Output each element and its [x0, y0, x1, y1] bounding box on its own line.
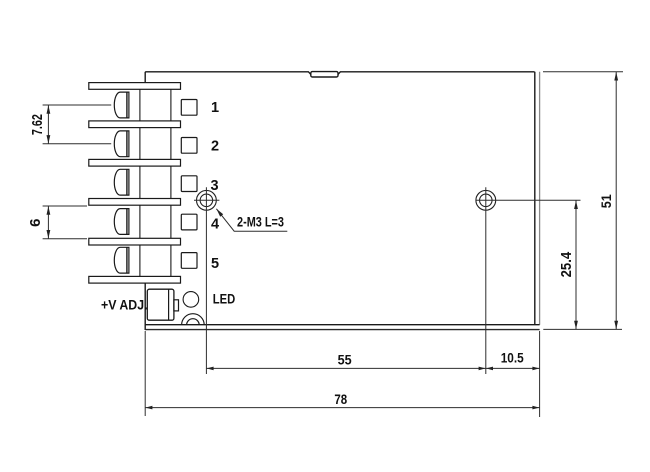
svg-text:4: 4 [211, 217, 219, 233]
pin marker square 4 [181, 214, 197, 230]
svg-text:78: 78 [334, 391, 347, 407]
bottom edge hole outer arc [182, 314, 205, 325]
dimension 7.62 line [47, 105, 49, 144]
LED indicator circle [183, 292, 199, 308]
mounting hole left inner circle [200, 194, 213, 207]
arrowhead 78 left [145, 406, 152, 410]
svg-text:2-M3 L=3: 2-M3 L=3 [237, 214, 284, 230]
dimension 6 extension line top [43, 205, 87, 207]
mounting hole right inner circle [480, 194, 493, 207]
potentiometer tab [174, 300, 179, 311]
case bottom edge outer line [145, 329, 539, 331]
dimension 10.5 line [486, 367, 540, 369]
pin marker square 2 [181, 138, 197, 154]
dimension 7.62 extension line top [43, 104, 112, 106]
dimension 78 line [145, 407, 539, 409]
dimension 78 and 10.5 right extension line [539, 331, 541, 417]
case right flange inner line [534, 72, 536, 325]
arrowhead 51 bottom [614, 321, 618, 330]
dimension 51 extension line top [543, 71, 623, 73]
arrowhead 10.5 left [486, 367, 493, 371]
arrowhead 51 top [614, 72, 618, 81]
svg-text:+V ADJ.: +V ADJ. [101, 296, 148, 312]
dimension 55 line [206, 367, 485, 369]
dimension 78 left extension line [144, 331, 146, 416]
case cover notch [311, 72, 338, 77]
mounting hole left horizontal centerline [194, 199, 219, 201]
svg-text:6: 6 [27, 219, 44, 227]
arrowhead 7.62 top [47, 105, 51, 114]
dimension 25.4 line [575, 200, 577, 329]
terminal block divider bar 5 [89, 238, 181, 245]
terminal block divider bar 2 [89, 121, 181, 128]
svg-text:1: 1 [211, 100, 219, 116]
svg-text:LED: LED [213, 291, 236, 307]
arrowhead leader 2-M3 [216, 209, 223, 217]
case right flange outer line [539, 72, 541, 325]
arrowhead 25.4 top [574, 201, 578, 210]
svg-text:5: 5 [211, 256, 219, 272]
pin marker square 5 [181, 253, 197, 269]
arrowhead 6 top [47, 206, 51, 215]
arrowhead 25.4 bottom [574, 321, 578, 330]
arrowhead 7.62 bottom [47, 135, 51, 144]
pin marker square 1 [181, 100, 197, 116]
svg-text:2: 2 [211, 139, 219, 155]
case top edge right segment [338, 72, 535, 75]
terminal screw 4 [114, 209, 129, 235]
terminal block right vertical line [170, 89, 172, 276]
svg-text:3: 3 [211, 178, 219, 194]
terminal block divider bar 1 [89, 83, 181, 90]
terminal screw 1 [114, 92, 129, 118]
dimension 7.62 extension line bottom [43, 143, 112, 145]
dimension 6 line [47, 206, 49, 239]
terminal screw 5 [114, 247, 129, 273]
mounting hole right vertical centerline and 10.5 extension line [485, 187, 487, 374]
svg-text:10.5: 10.5 [501, 351, 524, 366]
arrowhead 78 right [532, 406, 539, 410]
arrowhead 55 left [207, 367, 214, 371]
mounting hole right horizontal centerline and 25.4 extension line [476, 199, 581, 201]
terminal block divider bar 6 [89, 276, 181, 283]
case bottom edge inner line [145, 324, 539, 326]
terminal screw 2 [114, 131, 129, 157]
terminal block divider bar 4 [89, 199, 181, 206]
terminal block inner vertical line [139, 89, 141, 276]
mounting hole right outer circle [476, 190, 496, 210]
dimension 6 extension line bottom [43, 238, 87, 240]
svg-text:51: 51 [598, 194, 614, 208]
dimension 51 and 25.4 shared extension line bottom [543, 328, 622, 330]
mounting hole left vertical centerline and 55 extension line [205, 187, 207, 374]
bottom edge hole inner arc [187, 319, 200, 325]
potentiometer +V ADJ body [147, 289, 174, 320]
leader line for 2-M3 L=3 [216, 209, 287, 231]
arrowhead 6 bottom [47, 230, 51, 239]
mounting hole left outer circle [197, 190, 217, 210]
dimension 51 line [615, 72, 617, 330]
arrowhead 55 right [479, 367, 486, 371]
svg-text:7.62: 7.62 [29, 114, 46, 135]
case left edge upper segment [144, 72, 146, 83]
case left edge lower segment [144, 283, 146, 330]
case top edge left segment [145, 72, 311, 75]
svg-text:55: 55 [338, 352, 352, 368]
potentiometer inner line [168, 289, 170, 320]
pin marker square 3 [181, 176, 197, 192]
terminal screw 3 [114, 169, 129, 195]
terminal block divider bar 3 [89, 159, 181, 166]
svg-text:25.4: 25.4 [558, 251, 575, 277]
arrowhead 10.5 right [532, 367, 539, 371]
